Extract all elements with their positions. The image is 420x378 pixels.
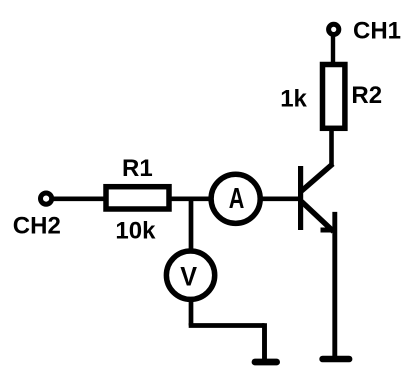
transistor Q1 emitter diagonal bbox=[302, 202, 334, 232]
transistor Q1 collector diagonal bbox=[302, 164, 333, 191]
terminal CH2 bbox=[41, 193, 52, 204]
transistor Q1 base bar bbox=[298, 166, 303, 230]
svg-text:V: V bbox=[180, 262, 197, 292]
svg-text:1k: 1k bbox=[280, 86, 307, 113]
svg-text:10k: 10k bbox=[115, 217, 156, 244]
wire emitter vertical to ground bbox=[332, 212, 337, 359]
svg-text:A: A bbox=[229, 183, 245, 215]
ammeter A bbox=[211, 174, 260, 223]
terminal CH1 bbox=[329, 24, 339, 34]
wire CH1 drop to R2 bbox=[331, 29, 335, 66]
wire CH2 to R1 (main horizontal net, base wire) bbox=[46, 197, 300, 202]
svg-text:CH1: CH1 bbox=[353, 18, 401, 45]
ground (right) bbox=[323, 356, 350, 363]
wire R2 bottom to collector bbox=[329, 128, 334, 166]
resistor R1 bbox=[106, 187, 169, 209]
transistor Q1 emitter arrow barb bbox=[321, 228, 334, 233]
resistor R2 bbox=[323, 65, 345, 129]
wire junction drop to voltmeter bbox=[189, 199, 194, 252]
wire voltmeter bottom drop bbox=[189, 300, 194, 326]
ground (left) bbox=[255, 359, 277, 366]
svg-text:R2: R2 bbox=[351, 82, 382, 109]
svg-text:R1: R1 bbox=[122, 155, 153, 182]
voltmeter V bbox=[166, 251, 214, 299]
wire drop to left ground bbox=[262, 323, 267, 362]
wire bottom horizontal to ground bbox=[189, 323, 265, 328]
svg-text:CH2: CH2 bbox=[13, 212, 61, 239]
